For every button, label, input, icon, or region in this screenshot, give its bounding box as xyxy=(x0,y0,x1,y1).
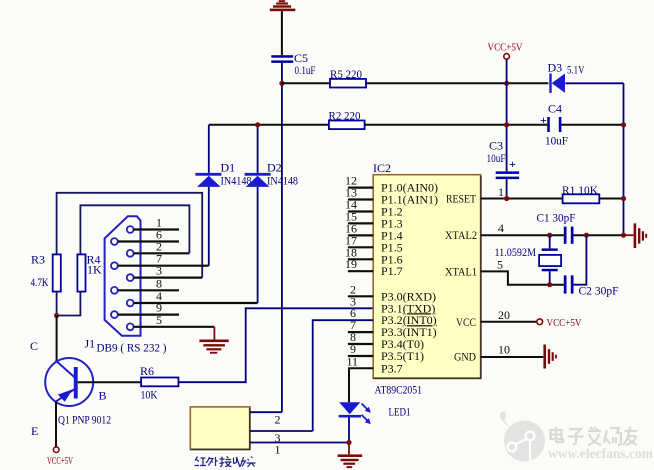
DB9 pin 5 line xyxy=(134,326,215,328)
wire R2 to C4 xyxy=(365,124,548,126)
crystal Y1 11.0592M xyxy=(495,235,562,285)
wire GND pin10 xyxy=(481,356,544,358)
capacitor C3 10uF xyxy=(487,139,520,180)
wire C4 to right rail xyxy=(561,124,623,126)
svg-text:E: E xyxy=(31,424,38,438)
diode D1 IN4148 xyxy=(195,125,251,266)
wire collector vertical xyxy=(56,316,58,363)
svg-text:XTAL2: XTAL2 xyxy=(445,228,477,242)
svg-text:VCC+5V: VCC+5V xyxy=(547,317,582,329)
svg-text:20: 20 xyxy=(498,308,510,322)
svg-text:IN4148: IN4148 xyxy=(267,174,298,188)
svg-text:5: 5 xyxy=(156,313,162,327)
wire rail to side ground (red) xyxy=(624,234,634,236)
svg-text:Q1 PNP 9012: Q1 PNP 9012 xyxy=(58,413,111,427)
wire base to R6 xyxy=(78,381,141,383)
wire VCC stem down to C3 xyxy=(506,59,508,171)
wire VCC pin20 xyxy=(481,321,537,323)
svg-text:J1: J1 xyxy=(85,337,96,351)
DB9 pin 7 line (to D1) xyxy=(118,265,209,267)
svg-text:2: 2 xyxy=(275,413,281,427)
node junction C2 riser / XTAL2 row xyxy=(584,233,589,238)
capacitor C1 30pF xyxy=(537,211,576,244)
node junction crystal bottom xyxy=(547,282,552,287)
svg-text:10: 10 xyxy=(498,343,510,357)
IC pin numbers right xyxy=(497,185,510,357)
LED1 xyxy=(339,402,411,442)
wire LED junction to ground (red) xyxy=(348,443,350,455)
ground GND below DB9 pin5 xyxy=(199,340,228,354)
svg-text:10uF: 10uF xyxy=(487,151,506,165)
IC left pin stubs P1.0-P1.7 xyxy=(348,188,373,272)
node junction C3/RESET xyxy=(504,196,509,201)
node junction crystal top xyxy=(547,233,552,238)
power VCC+5V at pin20 xyxy=(537,317,582,329)
wire XTAL1 pin5 jog xyxy=(481,271,564,284)
wire R2 row (from D1 corner to C4) xyxy=(209,124,329,126)
DB9 pin 2 line xyxy=(134,252,190,254)
wire C3 bottom to RESET row xyxy=(506,179,508,198)
node junction R1/right rail xyxy=(621,196,626,201)
svg-text:4: 4 xyxy=(498,221,504,235)
DB9 pin 6 line xyxy=(118,240,179,242)
svg-text:RESET: RESET xyxy=(446,192,477,206)
svg-text:1: 1 xyxy=(498,185,504,199)
wire R3 bottom to junction xyxy=(56,292,58,316)
ground GND below LED1 xyxy=(338,454,363,468)
DB9 pin 4 line (to D2) xyxy=(134,302,258,304)
IR pin 2 wire xyxy=(250,411,282,413)
DB9 pin circles left column (6,7,8,9) xyxy=(111,238,118,318)
wire emitter down to VCC circle xyxy=(55,401,57,446)
svg-text:+: + xyxy=(509,157,516,171)
label 红外接收头 (IR receiver, CJK strokes) xyxy=(195,457,256,468)
IC pin names right column xyxy=(445,192,477,364)
wire DB9 pin5 to ground (red) xyxy=(213,327,215,340)
wire C2 right riser up to XTAL2 row xyxy=(573,235,586,285)
power VCC+5V bottom xyxy=(47,447,73,467)
IR pin numbers xyxy=(275,413,281,457)
svg-text:C: C xyxy=(30,339,38,353)
wire ground to C5 top xyxy=(281,11,283,55)
DB9 pin 9 line xyxy=(118,314,179,316)
wire D3 to right rail xyxy=(565,82,623,84)
wire C1 right to rail xyxy=(573,234,623,236)
svg-text:D2: D2 xyxy=(267,161,282,175)
svg-text:R2 220: R2 220 xyxy=(329,109,361,123)
svg-text:VCC: VCC xyxy=(456,315,476,329)
IC pin numbers left xyxy=(345,174,358,369)
watermark logo elecfans xyxy=(500,411,545,461)
diode D2 IN4148 xyxy=(245,125,298,303)
IC pin names left column xyxy=(381,181,438,376)
svg-text:19: 19 xyxy=(345,257,357,271)
node junction D2 / R2 row xyxy=(255,122,260,127)
wire C5 bottom down to IR receiver pin2 (long vertical) xyxy=(281,63,283,412)
svg-text:C1 30pF: C1 30pF xyxy=(537,211,576,225)
wire RESET row xyxy=(481,198,563,200)
resistor R3 4.7K xyxy=(31,253,61,292)
wire R4 bottom jog to junction xyxy=(57,292,81,316)
svg-text:www.elecfans.com: www.elecfans.com xyxy=(548,446,654,461)
svg-text:5.1V: 5.1V xyxy=(567,63,585,77)
wire P3.7 pin11 to LED1 xyxy=(349,368,373,402)
wire R3-top to DB9 pin3 (upper horizontal) xyxy=(57,193,203,278)
svg-text:R5 220: R5 220 xyxy=(330,67,362,81)
wire R6 right to P3.1 (TXD) xyxy=(178,308,373,382)
svg-text:VCC+5V: VCC+5V xyxy=(488,42,523,54)
IR receiver module box xyxy=(190,407,250,450)
DB9 pin 1 line xyxy=(134,228,179,230)
svg-text:C4: C4 xyxy=(548,102,562,116)
svg-text:5: 5 xyxy=(497,257,503,271)
DB9 pin 3 line xyxy=(134,277,203,279)
svg-text:LED1: LED1 xyxy=(389,405,411,419)
IC left pin stubs P3.0-P3.5 xyxy=(348,296,373,356)
capacitor C4 10uF xyxy=(540,102,568,148)
DB9 pin 8 line xyxy=(118,289,179,291)
wire R5 row left segment xyxy=(282,82,330,84)
svg-text:DB9 ( RS 232 ): DB9 ( RS 232 ) xyxy=(97,341,167,355)
ground GND right of XTAL rail (sideways) xyxy=(634,223,648,248)
transistor Q1 PNP 9012 xyxy=(30,339,111,438)
wire P3.2 to IR pin3 xyxy=(313,320,374,431)
watermark text 电子发烧友 (gray glyph strokes) xyxy=(551,427,638,445)
IR pin 3 wire xyxy=(250,430,313,432)
ground GND top (above C5) xyxy=(270,0,296,11)
svg-text:1K: 1K xyxy=(87,263,102,277)
svg-text:P3.7: P3.7 xyxy=(381,361,403,375)
svg-text:R3: R3 xyxy=(31,253,45,267)
IR pin 1 wire xyxy=(250,442,349,444)
node junction VCC/R5 row xyxy=(504,81,509,86)
resistor R4 1K xyxy=(77,253,102,292)
wire XTAL2 row xyxy=(481,234,564,236)
node junction right rail / C4 xyxy=(621,122,626,127)
svg-text:R6: R6 xyxy=(140,364,154,378)
node junction right rail bottom xyxy=(621,233,626,238)
svg-text:11.0592M: 11.0592M xyxy=(495,245,537,259)
ground GND at pin10 (sideways) xyxy=(543,345,557,369)
svg-text:VCC+5V: VCC+5V xyxy=(47,455,73,467)
svg-text:XTAL1: XTAL1 xyxy=(445,264,477,278)
wire R1 to right rail xyxy=(599,198,623,200)
svg-text:10K: 10K xyxy=(141,388,158,402)
DB9 pin number labels xyxy=(156,216,162,327)
wire right rail vertical xyxy=(623,83,625,235)
node junction LED/IR pin1 xyxy=(346,440,351,445)
svg-text:IC2: IC2 xyxy=(373,161,391,175)
svg-text:10uF: 10uF xyxy=(545,134,568,148)
capacitor C5 xyxy=(271,51,315,77)
wire R4-top to DB9 pin2 xyxy=(80,205,189,254)
diode D3 zener 5.1V xyxy=(548,61,585,93)
resistor R5 220 xyxy=(330,67,366,88)
svg-text:11: 11 xyxy=(346,354,358,368)
DB9 pin circles right column (1,2,3,4,5) xyxy=(127,226,134,330)
svg-text:R1 10K: R1 10K xyxy=(562,183,598,197)
capacitor C2 30pF xyxy=(564,275,619,297)
svg-text:0.1uF: 0.1uF xyxy=(295,63,316,77)
svg-text:B: B xyxy=(99,389,107,403)
svg-text:+: + xyxy=(540,113,547,127)
svg-text:GND: GND xyxy=(454,350,476,364)
resistor R1 10K xyxy=(562,183,599,203)
connector J1 DB9 outline xyxy=(105,216,141,335)
svg-text:P1.7: P1.7 xyxy=(381,264,403,278)
node junction C5/R5 xyxy=(279,81,284,86)
wire R5 to D3 row xyxy=(366,82,548,84)
power VCC+5V top xyxy=(488,42,523,60)
resistor R2 220 xyxy=(329,109,365,130)
op-amp/IC U1 AT89C2051 body xyxy=(373,161,481,397)
svg-text:AT89C2051: AT89C2051 xyxy=(375,383,423,397)
svg-text:D3: D3 xyxy=(548,61,563,75)
svg-text:D1: D1 xyxy=(221,161,236,175)
resistor R6 10K xyxy=(140,364,178,402)
node junction R3/R4/collector xyxy=(54,313,59,318)
svg-text:4.7K: 4.7K xyxy=(31,275,49,289)
svg-text:1: 1 xyxy=(275,442,281,456)
node junction VCC/R2 row xyxy=(504,122,509,127)
